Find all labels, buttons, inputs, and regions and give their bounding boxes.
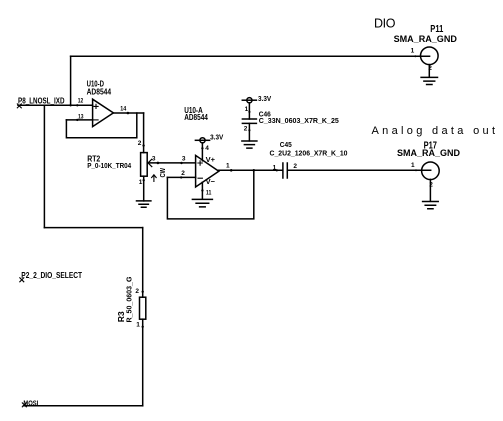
wire C46 pin2 to ground: [248, 123, 250, 140]
pin dot U10-D pin13: [76, 119, 78, 121]
svg-text:2: 2: [138, 140, 142, 147]
svg-text:R3: R3: [116, 311, 126, 322]
port marker P8: [17, 104, 21, 108]
svg-text:CW: CW: [160, 168, 167, 178]
wire branch up to DIO: [70, 56, 72, 105]
wire U10-A feedback loop: [167, 170, 253, 219]
junction dot feedback tap: [253, 169, 256, 172]
svg-text:1: 1: [226, 163, 230, 170]
port marker P2_2_DIO_SELECT: [20, 278, 24, 282]
pin dot RT2 pin1: [143, 179, 145, 181]
wire MOSI net: [23, 405, 142, 407]
wire U10-D pin13: [66, 119, 92, 121]
wire U10-A output to C45: [219, 169, 283, 171]
op-amp U10-D plus sign: [94, 104, 98, 108]
wire output down to RT2: [143, 113, 145, 153]
svg-text:AD8544: AD8544: [184, 112, 208, 122]
pin dot U10-D pin14: [127, 112, 130, 115]
pin dot P17 pin1: [415, 169, 417, 171]
pin dot R3 pin1: [142, 326, 144, 328]
wire RT2 pin1 to ground: [143, 176, 145, 201]
op-amp U10-A: [196, 155, 219, 187]
port marker MOSI: [22, 403, 26, 407]
svg-text:4: 4: [205, 145, 209, 152]
pin dot P11 pin1: [414, 55, 416, 57]
svg-text:1: 1: [139, 179, 143, 186]
pin dot U10-A pin11: [201, 189, 203, 191]
wire R3 to MOSI: [142, 319, 144, 406]
svg-text:SMA_RA_GND: SMA_RA_GND: [397, 148, 460, 158]
svg-text:3.3V: 3.3V: [258, 96, 271, 103]
RT2 wiper arrow: [148, 159, 152, 166]
svg-text:DIO: DIO: [374, 16, 396, 30]
svg-text:P_0-10K_TR04: P_0-10K_TR04: [87, 163, 131, 170]
svg-text:2: 2: [429, 181, 433, 188]
ground under RT2: [137, 201, 151, 207]
connector P11 circle: [421, 47, 439, 65]
wire horizontal jog: [44, 227, 142, 229]
svg-text:2: 2: [428, 65, 432, 72]
wire RT2 wiper to U10-A pin3: [148, 162, 196, 164]
svg-text:13: 13: [78, 113, 84, 120]
op-amp U10-D minus sign: [94, 119, 98, 121]
svg-text:2: 2: [181, 170, 185, 177]
pin dot U10-A pin4: [201, 147, 203, 149]
svg-text:AD8544: AD8544: [87, 87, 112, 97]
pin dot R3 pin2: [142, 291, 144, 293]
connector P17 circle: [422, 162, 440, 180]
capacitor C46 plates: [242, 119, 256, 123]
pin dot C46 pin1: [248, 111, 250, 113]
wire down to R3: [142, 228, 144, 298]
wire U10-D output: [113, 112, 144, 114]
svg-text:2: 2: [135, 288, 139, 295]
svg-text:3.3V: 3.3V: [210, 135, 223, 142]
svg-text:SMA_RA_GND: SMA_RA_GND: [394, 34, 458, 44]
svg-text:RT2: RT2: [87, 154, 100, 164]
wire P17 pin2 to ground: [429, 179, 431, 201]
svg-text:C45: C45: [280, 140, 292, 149]
wire branch down from P8 net: [43, 105, 45, 227]
svg-text:11: 11: [206, 189, 212, 196]
pin dot U10-D pin12: [76, 104, 78, 106]
svg-text:3: 3: [182, 155, 186, 162]
ground under P17: [423, 202, 439, 209]
svg-text:1: 1: [273, 165, 277, 172]
wire U10-D feedback loop: [66, 113, 136, 138]
pin dot RT2 pin2: [142, 144, 144, 146]
svg-text:1: 1: [411, 48, 415, 55]
ground under U10-A: [192, 199, 212, 207]
power symbol 3.3V at C46: [242, 98, 256, 103]
wire C45 to P17: [288, 169, 431, 171]
svg-text:V−: V−: [206, 177, 216, 186]
capacitor C45 plates: [283, 163, 287, 178]
pin dot C45 pin1: [276, 169, 278, 171]
svg-text:V+: V+: [206, 155, 216, 164]
wire C46 pin1: [248, 103, 250, 119]
ground under P11: [421, 77, 437, 84]
svg-text:2: 2: [244, 126, 248, 133]
power symbol 3.3V at U10-A: [195, 138, 209, 143]
svg-text:P8_LNOSL_IXD: P8_LNOSL_IXD: [18, 96, 65, 106]
svg-text:3: 3: [152, 156, 156, 163]
ground under C46: [242, 141, 257, 148]
wire P8 input net: [18, 104, 93, 106]
svg-text:MOSI: MOSI: [23, 400, 38, 407]
svg-text:1: 1: [411, 162, 415, 169]
wire P11 pin2 to ground: [428, 65, 430, 78]
op-amp U10-A minus sign: [198, 177, 202, 179]
wire U10-A pin4 V+: [201, 143, 203, 161]
wire U10-A pin11 V-: [201, 182, 203, 199]
svg-text:C_2U2_1206_X7R_K_10: C_2U2_1206_X7R_K_10: [270, 150, 348, 157]
svg-text:P2_2_DIO_SELECT: P2_2_DIO_SELECT: [21, 270, 82, 280]
svg-text:14: 14: [120, 105, 126, 112]
resistor R3 body: [140, 297, 146, 319]
svg-text:R_50_0603_G: R_50_0603_G: [127, 276, 134, 323]
junction dot net branch up: [69, 104, 71, 106]
op-amp U10-D: [93, 99, 114, 126]
pin dot C46 pin2: [248, 129, 250, 131]
potentiometer RT2 body: [141, 153, 148, 177]
pin dot U10-A pin1: [230, 169, 233, 172]
svg-text:12: 12: [78, 98, 84, 105]
wire U10-A pin2: [167, 176, 195, 178]
op-amp U10-A plus sign: [198, 161, 202, 165]
wire top DIO net to P11: [71, 55, 430, 57]
RT2 CW arrow: [152, 175, 157, 182]
pin dot U10-A pin2: [180, 176, 182, 178]
svg-text:1: 1: [136, 321, 140, 328]
junction dot RT2 wiper: [157, 162, 160, 165]
svg-text:C_33N_0603_X7R_K_25: C_33N_0603_X7R_K_25: [259, 118, 339, 125]
pin dot U10-A pin3: [180, 162, 182, 164]
svg-text:2: 2: [293, 163, 297, 170]
svg-text:1: 1: [245, 106, 249, 113]
